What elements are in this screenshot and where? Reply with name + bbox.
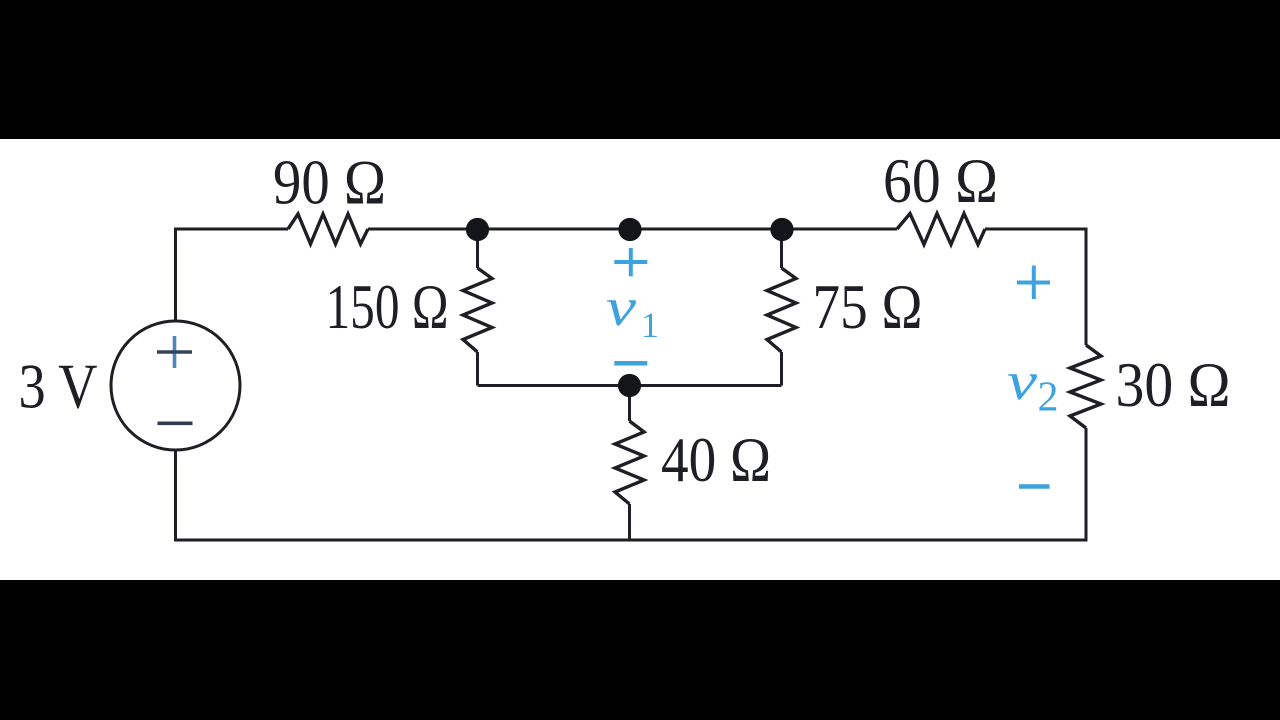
label v2 (1007, 351, 1059, 421)
wire: 75ohm top stub (780, 229, 783, 268)
source plus sign (173, 336, 177, 368)
svg-text:v: v (1007, 351, 1037, 411)
resistor 40ohm zigzag (615, 421, 644, 504)
svg-text:150 Ω: 150 Ω (326, 271, 449, 342)
white panel (0, 139, 1280, 580)
wire: left branch (top-left corner down to source top) (176, 229, 289, 322)
voltage source circle 3V (111, 321, 240, 450)
node C dot (right, top rail) (770, 218, 793, 241)
wire: top right corner down to 30ohm (985, 229, 1086, 345)
resistor 30ohm zigzag (1070, 345, 1101, 428)
label v1 (606, 277, 659, 345)
v1 minus mark (614, 361, 647, 366)
svg-text:2: 2 (1038, 375, 1059, 421)
v1 plus mark (614, 248, 647, 276)
svg-text:75 Ω: 75 Ω (813, 271, 923, 342)
wire: 75ohm bottom stub (780, 352, 783, 386)
wire: 40ohm bottom stub (628, 504, 631, 540)
svg-text:3 V: 3 V (19, 351, 98, 422)
resistor 60ohm zigzag (897, 214, 985, 245)
resistor 150ohm zigzag (463, 268, 492, 352)
wire: 150ohm top stub (476, 229, 479, 268)
node A dot (left, top rail) (466, 218, 489, 241)
svg-text:60 Ω: 60 Ω (883, 145, 998, 216)
wire: inner bottom rail (478, 384, 782, 387)
svg-text:90 Ω: 90 Ω (273, 147, 386, 218)
wire: top middle segment (368, 228, 897, 231)
v2 plus mark (1017, 266, 1050, 300)
svg-text:1: 1 (641, 305, 659, 345)
node B dot (middle, top rail) (618, 218, 641, 241)
resistor 75ohm zigzag (767, 268, 796, 352)
node D dot (inner bottom rail) (618, 374, 641, 397)
v2 minus mark (1019, 484, 1050, 489)
svg-text:v: v (606, 277, 636, 337)
wire: 40ohm top stub (628, 386, 631, 422)
source minus sign (158, 421, 193, 425)
svg-text:40 Ω: 40 Ω (661, 424, 771, 495)
wire: 150ohm bottom stub (476, 352, 479, 386)
resistor 90ohm zigzag (288, 214, 368, 244)
wire: right bottom, bottom rail, up to source bottom (176, 428, 1087, 540)
svg-text:30 Ω: 30 Ω (1116, 349, 1231, 420)
